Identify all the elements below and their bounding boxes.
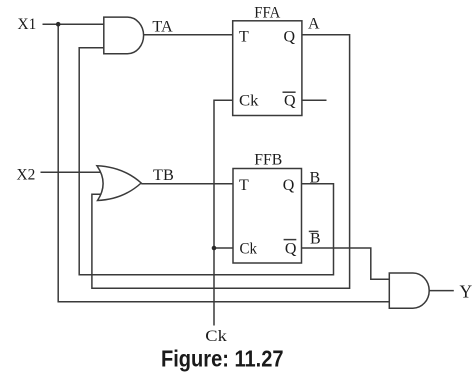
svg-text:TB: TB bbox=[153, 167, 174, 184]
overline of Q-bar pin FFA bbox=[283, 91, 296, 93]
wire Y output bbox=[429, 290, 454, 292]
wire net B-bar (FFB Q-bar to Y-gate upper input) bbox=[302, 248, 390, 279]
svg-text:FFB: FFB bbox=[254, 152, 282, 169]
svg-text:Q: Q bbox=[284, 93, 296, 110]
svg-text:Q: Q bbox=[285, 240, 297, 257]
wire net A (FFA Q to OR lower input) bbox=[92, 35, 350, 288]
svg-text:Ck: Ck bbox=[205, 328, 227, 345]
wire X2 lead bbox=[41, 171, 101, 173]
and-gate U3 output bbox=[389, 273, 429, 308]
svg-text:X2: X2 bbox=[17, 167, 36, 184]
wire FFA Q-bar stub bbox=[302, 99, 327, 101]
wire clock trunk (FFA Ck down to Ck source) bbox=[214, 100, 233, 325]
svg-text:T: T bbox=[239, 177, 249, 194]
wire X1 trunk to Y-gate lower input bbox=[58, 24, 389, 302]
flip-flop FFB box bbox=[233, 169, 302, 264]
svg-text:Ck: Ck bbox=[239, 93, 259, 110]
svg-text:B: B bbox=[310, 231, 321, 248]
svg-text:Q: Q bbox=[284, 28, 296, 45]
svg-text:T: T bbox=[239, 28, 249, 45]
wire FFB Ck lead bbox=[214, 247, 233, 249]
junction dot at X1 bbox=[56, 22, 61, 27]
svg-text:Q: Q bbox=[283, 177, 295, 194]
svg-text:TA: TA bbox=[152, 19, 173, 36]
svg-text:Y: Y bbox=[460, 282, 473, 302]
svg-text:Ck: Ck bbox=[240, 240, 258, 257]
flip-flop FFA box bbox=[233, 21, 302, 116]
and-gate U1 top-left bbox=[104, 17, 144, 54]
overline of Q-bar pin FFB bbox=[284, 239, 297, 241]
svg-text:A: A bbox=[308, 16, 320, 33]
svg-text:Figure: 11.27: Figure: 11.27 bbox=[161, 345, 284, 371]
junction dot on clock trunk at FFB Ck bbox=[212, 246, 217, 251]
svg-text:FFA: FFA bbox=[254, 5, 280, 22]
svg-text:B: B bbox=[310, 170, 321, 187]
or-gate U2 bbox=[97, 166, 141, 201]
wire TA (AND1 output to FFA T) bbox=[144, 34, 233, 36]
wire net B (FFB Q to AND1 lower input) bbox=[79, 48, 333, 275]
svg-text:X1: X1 bbox=[18, 16, 37, 33]
wire TB (OR output to FFB T) bbox=[141, 183, 233, 185]
overline of node B-bar label bbox=[309, 230, 319, 232]
wire X1 lead bbox=[43, 23, 104, 25]
